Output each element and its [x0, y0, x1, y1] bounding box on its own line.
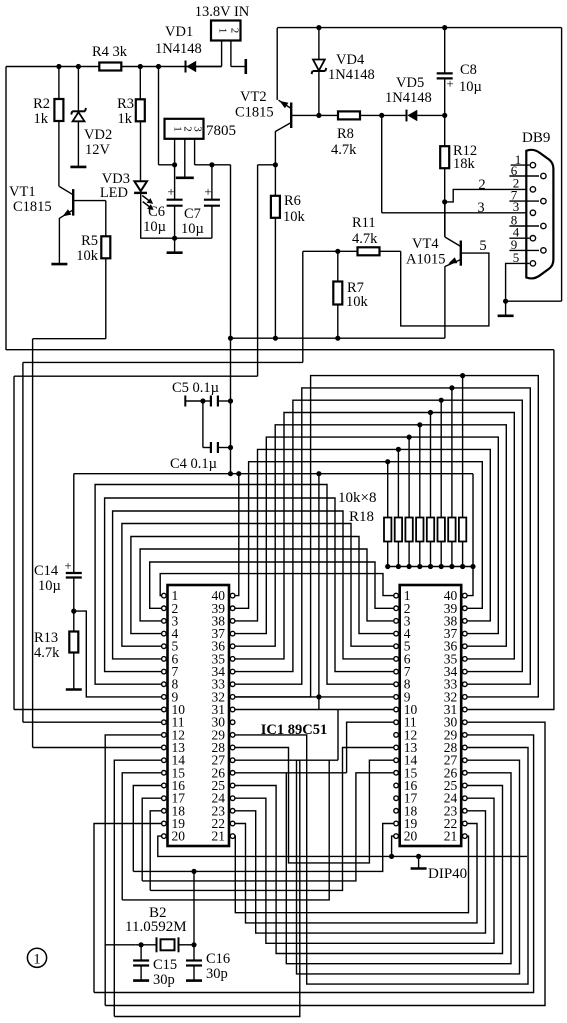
wire EA VPP riser	[467, 350, 554, 710]
svg-text:10µ: 10µ	[459, 79, 482, 95]
svg-text:21: 21	[444, 829, 458, 844]
svg-text:1k: 1k	[34, 111, 49, 127]
IC2 pin 20	[394, 834, 399, 839]
wire P0.0 bus	[235, 462, 482, 609]
svg-text:VD1: VD1	[165, 24, 193, 40]
node base-VD4	[316, 113, 321, 118]
node VT2-R6	[273, 162, 278, 167]
wire EA VPP line	[6, 349, 554, 351]
wire J1 pin1 down	[221, 41, 223, 67]
node rail to VCC riser	[470, 564, 475, 569]
capacitor C8 10u	[444, 28, 446, 74]
node R18 rail 8	[460, 564, 465, 569]
IC2 pin 14	[394, 758, 399, 763]
svg-text:C8: C8	[460, 62, 477, 78]
IC2 pin 31	[463, 707, 468, 712]
wire IC1 pin12 XTAL1 column	[105, 735, 161, 1006]
wire IC1 pin14	[114, 760, 161, 1016]
IC2 pin 15	[394, 771, 399, 776]
svg-text:3: 3	[192, 126, 204, 132]
IC1 pin 38	[230, 619, 235, 624]
wire P2.6 loop	[235, 759, 338, 761]
wire +5V horizontal	[231, 337, 445, 339]
wire IC1 pin32 to IC2 pin9	[235, 696, 394, 698]
node C5 left	[200, 398, 205, 403]
node R18 rail 4	[417, 564, 422, 569]
wire 7805 pin2 gnd	[184, 139, 186, 178]
svg-text:C16: C16	[206, 951, 230, 967]
node B2 left	[139, 942, 144, 947]
svg-text:R13: R13	[34, 630, 58, 646]
wire VT4 base loop	[401, 251, 489, 326]
node B2 to pin16 line	[191, 869, 196, 874]
svg-text:DIP40: DIP40	[428, 866, 467, 882]
svg-text:DB9: DB9	[522, 130, 550, 146]
wire IC1 pin31 line	[235, 709, 338, 711]
svg-text:20: 20	[404, 829, 418, 844]
IC1 pin 39	[230, 606, 235, 611]
node R12-pin2	[442, 199, 447, 204]
IC1 pin 35	[230, 657, 235, 662]
node GND sym	[416, 854, 421, 859]
IC1 pin 11	[162, 720, 167, 725]
IC1 pin 34	[230, 669, 235, 674]
svg-text:+: +	[64, 558, 71, 573]
IC1 pin 21	[230, 834, 235, 839]
IC1 pin 29	[230, 733, 235, 738]
wire P1.7 bus pin8	[95, 485, 394, 685]
svg-text:R8: R8	[337, 126, 354, 142]
node 7805-C6	[172, 162, 177, 167]
svg-text:7805: 7805	[206, 123, 236, 139]
IC2 pin 27	[463, 758, 468, 763]
IC2 pin 17	[394, 796, 399, 801]
wire IC1 pin18 to IC2 pin13	[150, 748, 394, 891]
R18 element 4	[416, 518, 423, 542]
wire R11 left down	[302, 251, 304, 362]
resistor R5 10k	[74, 200, 106, 202]
IC2 pin 24	[463, 796, 468, 801]
wire VT2 emitter up	[276, 28, 278, 100]
resistor R12 18k	[444, 115, 446, 146]
wire P2.3 loop	[235, 798, 494, 943]
wire 7805 pin1	[174, 139, 176, 165]
capacitor C16 30p	[193, 945, 195, 961]
svg-text:5: 5	[513, 250, 520, 265]
node RST line	[316, 694, 321, 699]
svg-text:21: 21	[212, 829, 226, 844]
IC1 pin 15	[162, 771, 167, 776]
IC2 pin 18	[394, 809, 399, 814]
wire B2 right riser	[193, 871, 195, 944]
svg-text:C14: C14	[34, 563, 59, 579]
wire loop IC1pin29-IC2pin28	[235, 735, 528, 984]
svg-text:10k×8: 10k×8	[338, 490, 376, 506]
wire IC2 pin10 jog	[337, 710, 339, 761]
IC1 pin 3	[162, 619, 167, 624]
IC1 pin 27	[230, 758, 235, 763]
R18 element 5	[427, 518, 434, 542]
IC2 pin 23	[463, 809, 468, 814]
IC1 pin 22	[230, 821, 235, 826]
svg-text:10k: 10k	[283, 209, 306, 225]
wire 7805 pin3 out	[194, 139, 196, 165]
svg-text:4.7k: 4.7k	[331, 142, 357, 158]
IC1 pin 23	[230, 809, 235, 814]
IC U1 89C51 body	[168, 585, 230, 846]
wire IC1 pin16	[133, 786, 161, 872]
wire IC1 pin15 loop E	[122, 760, 329, 900]
IC1 pin 31	[230, 707, 235, 712]
svg-text:C4 0.1µ: C4 0.1µ	[170, 456, 217, 472]
wire P0.6 bus	[235, 388, 530, 684]
DB9 pin 5	[530, 261, 535, 266]
wire 3 line to DB9 pin3	[381, 115, 383, 212]
node R8-VD5	[379, 113, 384, 118]
wire P1.4 bus pin5	[122, 524, 394, 647]
resistor R2 1k	[58, 67, 60, 100]
resistor R4	[99, 63, 121, 71]
wire top C8 line	[277, 27, 561, 29]
wire P0.3 bus	[235, 425, 506, 646]
node P0.3 R18	[417, 422, 422, 427]
wire +5V down	[230, 165, 232, 338]
DB9 pin6 stub	[509, 175, 539, 177]
node GND IC2	[389, 854, 394, 859]
wire P0.1 bus	[235, 449, 490, 621]
wire loop pin12col-IC2pin30	[105, 722, 545, 1005]
node R18 rail 3	[407, 564, 412, 569]
svg-text:R5: R5	[81, 233, 98, 249]
svg-text:11.0592M: 11.0592M	[125, 919, 187, 935]
svg-text:+: +	[204, 184, 211, 199]
wire gnd to top	[506, 300, 562, 302]
wire rail to 7805 in	[158, 67, 160, 165]
wire R18 lead 1	[387, 462, 389, 518]
svg-text:C7: C7	[184, 206, 201, 222]
node R6 bottom	[273, 336, 278, 341]
ground C16	[186, 979, 202, 982]
IC1 pin 9	[162, 695, 167, 700]
wire IC2 pin20 GND	[392, 836, 394, 856]
node VCC C4	[228, 471, 233, 476]
node C5 right	[228, 398, 233, 403]
wire loop pin19-IC2pin29	[94, 735, 534, 993]
R18 element 1	[384, 518, 391, 542]
svg-text:R4 3k: R4 3k	[92, 44, 128, 60]
node R7 bottom	[335, 336, 340, 341]
IC2 pin 9	[394, 695, 399, 700]
node top-VD4	[316, 25, 321, 30]
ground DB9	[505, 301, 507, 315]
node rail-VD2	[76, 64, 81, 69]
wire VCC to RST	[318, 474, 320, 697]
wire R18 lead 5	[430, 413, 432, 518]
DB9 pin 6	[541, 173, 546, 178]
ground C6C7	[174, 238, 176, 253]
wire P2.2 loop	[235, 811, 486, 933]
zener VD2 12V	[77, 67, 79, 112]
node out-C7	[209, 162, 214, 167]
resistor R8 4.7k	[338, 111, 360, 119]
DB9 pin 8	[541, 223, 546, 228]
svg-text:10µ: 10µ	[143, 219, 166, 235]
wire IC1 pin13	[33, 747, 162, 749]
IC1 pin 28	[230, 745, 235, 750]
IC1 pin 13	[162, 745, 167, 750]
node +5V left	[228, 336, 233, 341]
DB9 pin 3	[530, 210, 535, 215]
svg-text:R11: R11	[352, 215, 376, 231]
node VD5-C8	[442, 113, 447, 118]
svg-text:C6: C6	[148, 204, 165, 220]
IC1 pin 7	[162, 669, 167, 674]
IC2 pin 30	[463, 720, 468, 725]
IC1 pin 25	[230, 783, 235, 788]
wire IC1 pin10 RXD	[14, 709, 162, 711]
node C6 gnd	[172, 236, 177, 241]
IC2 pin 32	[463, 695, 468, 700]
capacitor C15 30p	[140, 945, 142, 961]
wire IC1 pin19	[94, 824, 162, 993]
node VCC pin40	[236, 471, 241, 476]
wire P0.5 bus	[235, 400, 522, 671]
svg-text:4.7k: 4.7k	[352, 231, 378, 247]
ground C15	[133, 979, 149, 982]
IC1 pin 5	[162, 644, 167, 649]
svg-text:R18: R18	[349, 509, 374, 525]
wire P2.1 loop	[235, 824, 477, 923]
IC1 pin 20	[162, 834, 167, 839]
DB9 pin7 stub	[509, 200, 539, 202]
DB9 pin8 stub	[509, 225, 539, 227]
svg-text:LED: LED	[100, 185, 128, 201]
IC2 pin 11	[394, 720, 399, 725]
wire IC1 pin11 TXD	[23, 721, 162, 723]
wire P1.5 bus pin6	[113, 511, 394, 659]
capacitor C6 10u	[174, 165, 176, 200]
IC2 pin 7	[394, 669, 399, 674]
IC2 pin 12	[394, 733, 399, 738]
node P0.6 R18	[449, 385, 454, 390]
IC2 pin 4	[394, 631, 399, 636]
DB9 pin1 stub	[511, 164, 530, 166]
svg-text:VD5: VD5	[396, 75, 424, 91]
IC2 pin 28	[463, 745, 468, 750]
node R18 rail 6	[439, 564, 444, 569]
IC1 pin 12	[162, 733, 167, 738]
node VCC RST	[316, 471, 321, 476]
ground VT1	[51, 263, 67, 266]
IC1 pin 17	[162, 796, 167, 801]
svg-text:10µ: 10µ	[38, 578, 61, 594]
node C14 R13	[71, 609, 76, 614]
svg-text:C15: C15	[153, 957, 177, 973]
svg-text:20: 20	[172, 829, 186, 844]
node P0.7 R18	[460, 373, 465, 378]
svg-text:18k: 18k	[453, 156, 476, 172]
node R11-R7	[335, 249, 340, 254]
IC1 pin 24	[230, 796, 235, 801]
circled 1 figure number	[27, 948, 46, 967]
node P0.5 R18	[439, 398, 444, 403]
IC2 pin 19	[394, 821, 399, 826]
ground J1 return bar	[245, 59, 248, 74]
wire IC1 pin20 GND	[158, 836, 527, 856]
IC1 pin 26	[230, 771, 235, 776]
svg-text:+: +	[167, 184, 174, 199]
wire P2.4 loop	[235, 786, 503, 954]
svg-text:VT1: VT1	[9, 184, 36, 200]
wire RST to IC1 pin9	[74, 611, 162, 697]
IC2 pin 33	[463, 682, 468, 687]
node C8 top	[442, 25, 447, 30]
IC1 pin 1	[162, 593, 167, 598]
svg-text:10k: 10k	[346, 294, 369, 310]
IC2 pin 26	[463, 771, 468, 776]
IC2 pin 29	[463, 733, 468, 738]
svg-text:3: 3	[477, 200, 484, 216]
wire B2 branch	[105, 944, 135, 946]
svg-text:R6: R6	[284, 193, 301, 209]
capacitor C14 10u	[73, 474, 75, 573]
IC2 pin 22	[463, 821, 468, 826]
svg-text:12V: 12V	[85, 142, 111, 158]
R18 element 8	[459, 518, 466, 542]
wire VCC line	[74, 473, 473, 475]
node B2 right	[191, 942, 196, 947]
node rail-7805	[156, 64, 161, 69]
IC2 pin 5	[394, 644, 399, 649]
ground R13	[66, 688, 82, 691]
IC1 pin 36	[230, 644, 235, 649]
wire R18 lead 4	[419, 425, 421, 518]
wire to DB9 pin2	[445, 189, 530, 202]
node R18 rail 5	[428, 564, 433, 569]
IC1 pin 37	[230, 631, 235, 636]
resistor R7 10k	[337, 251, 339, 281]
svg-text:1: 1	[33, 951, 40, 967]
svg-text:4.7k: 4.7k	[34, 645, 60, 661]
svg-text:C5 0.1µ: C5 0.1µ	[172, 380, 219, 396]
IC2 pin 35	[463, 657, 468, 662]
ground DIP40	[418, 856, 420, 868]
svg-text:10µ: 10µ	[181, 221, 204, 237]
wire P1.3 bus pin4	[131, 537, 394, 634]
IC U3 DIP40 body	[400, 585, 462, 846]
wire IC1 pin17	[142, 798, 161, 881]
IC2 pin 39	[463, 606, 468, 611]
IC1 pin 19	[162, 821, 167, 826]
DB9 pin4 stub	[509, 237, 529, 239]
svg-text:VT4: VT4	[412, 236, 439, 252]
svg-text:R2: R2	[33, 96, 50, 112]
wire P0.2 bus	[235, 437, 498, 633]
IC2 pin 36	[463, 644, 468, 649]
IC1 pin 40	[230, 593, 235, 598]
wire J1 pin2 down	[230, 41, 232, 67]
wire P2.0 loop	[235, 836, 469, 913]
svg-text:VD4: VD4	[336, 52, 365, 68]
R18 element 7	[448, 518, 455, 542]
resistor R3 1k	[139, 67, 141, 100]
node P0.2 R18	[407, 435, 412, 440]
R18 element 3	[405, 518, 412, 542]
wire P1.6 bus pin7	[105, 498, 394, 672]
wire P0.7 bus	[235, 376, 538, 697]
IC2 pin 34	[463, 669, 468, 674]
svg-text:13.8V IN: 13.8V IN	[195, 4, 250, 20]
IC2 pin 13	[394, 745, 399, 750]
R18 element 2	[395, 518, 402, 542]
IC2 pin 2	[394, 606, 399, 611]
wire R18 common rail	[388, 566, 473, 568]
DB9 pin5 stub	[506, 263, 530, 301]
node P0.0 R18	[385, 459, 390, 464]
DB9 pin 1	[530, 162, 535, 167]
DB9 pin 4	[530, 236, 535, 241]
wire P1.2 bus pin3	[140, 549, 394, 621]
IC1 pin 30	[230, 720, 235, 725]
wire VCC to IC2 pin40	[467, 474, 473, 596]
IC2 pin 38	[463, 619, 468, 624]
wire R18 lead 7	[451, 388, 453, 518]
IC1 pin 33	[230, 682, 235, 687]
wire IC1 pin40 VCC	[235, 474, 239, 596]
wire RXD route	[302, 361, 304, 363]
DB9 pin 7	[541, 198, 546, 203]
wire R18 lead 2	[397, 449, 399, 517]
wire IC1 pin18	[150, 811, 161, 891]
svg-text:2: 2	[478, 177, 485, 193]
DB9 pin 9	[541, 248, 546, 253]
wire VT1 emitter	[58, 218, 60, 264]
wire VT2 base	[291, 114, 338, 116]
DB9 pin 2	[530, 187, 535, 192]
wire +5Vb corner	[258, 164, 276, 166]
svg-text:C1815: C1815	[235, 105, 274, 121]
IC2 pin 6	[394, 657, 399, 662]
wire R5 route	[105, 258, 107, 339]
IC1 pin 2	[162, 606, 167, 611]
svg-text:1N4148: 1N4148	[328, 67, 375, 83]
IC1 pin 8	[162, 682, 167, 687]
wire VT4 emitter down	[444, 266, 446, 338]
IC2 pin 16	[394, 783, 399, 788]
IC1 pin 18	[162, 809, 167, 814]
IC2 pin 3	[394, 619, 399, 624]
wire VT4 collector	[444, 202, 446, 237]
wire P2.5 loop	[235, 772, 347, 774]
node P0.4 R18	[428, 410, 433, 415]
svg-text:10k: 10k	[76, 248, 99, 264]
IC1 pin 16	[162, 783, 167, 788]
svg-text:VT2: VT2	[240, 89, 267, 105]
IC1 pin 14	[162, 758, 167, 763]
wire R18 lead 6	[440, 400, 442, 517]
IC2 pin 8	[394, 682, 399, 687]
IC1 pin 6	[162, 657, 167, 662]
svg-text:1N4148: 1N4148	[385, 90, 432, 106]
IC2 pin 40	[463, 593, 468, 598]
wire IC1 pin28 to IC2 pin14	[235, 748, 394, 863]
IC2 pin 37	[463, 631, 468, 636]
wire P1.0 bus pin1	[160, 574, 394, 596]
wire VT2 collector down	[274, 131, 276, 165]
capacitor C7 10u	[211, 165, 213, 200]
wire IC1 pin16 to IC2 pin19 xtal	[133, 824, 394, 872]
svg-text:1N4148: 1N4148	[155, 41, 202, 57]
